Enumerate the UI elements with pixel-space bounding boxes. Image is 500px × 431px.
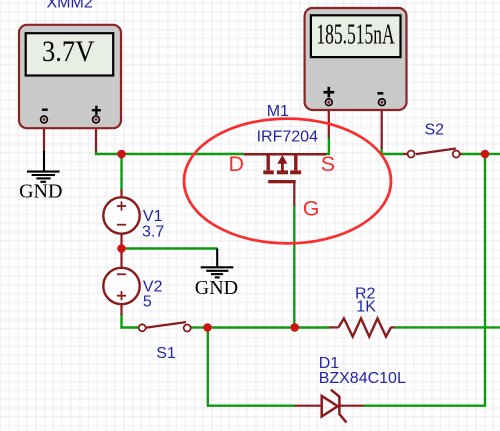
svg-text:G: G — [303, 196, 320, 220]
svg-text:XMM2: XMM2 — [47, 0, 93, 11]
svg-text:BZX84C10L: BZX84C10L — [319, 370, 406, 387]
svg-text:1K: 1K — [356, 299, 376, 316]
svg-text:IRF7204: IRF7204 — [257, 128, 318, 145]
svg-text:GND: GND — [19, 181, 62, 203]
svg-text:3.7V: 3.7V — [42, 35, 95, 68]
svg-text:185.515nA: 185.515nA — [316, 19, 394, 51]
svg-text:5: 5 — [143, 293, 152, 310]
svg-text:3.7: 3.7 — [142, 223, 164, 240]
svg-text:S2: S2 — [425, 121, 445, 138]
svg-text:GND: GND — [195, 277, 238, 299]
svg-text:M1: M1 — [267, 103, 289, 120]
svg-text:S: S — [321, 152, 335, 176]
svg-text:D: D — [229, 152, 245, 176]
svg-text:S1: S1 — [156, 345, 176, 362]
